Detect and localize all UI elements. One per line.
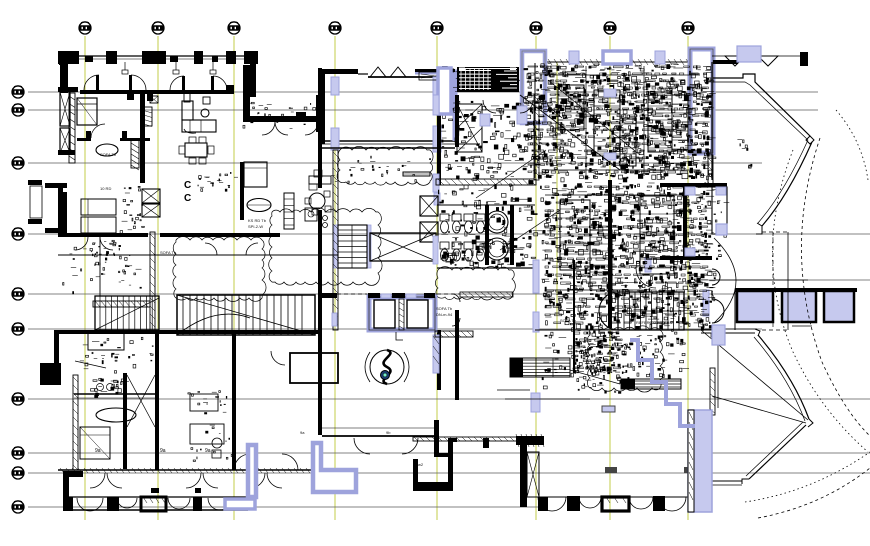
svg-text:C: C	[184, 193, 191, 204]
svg-text:SOFA Tb: SOFA Tb	[160, 250, 177, 255]
svg-text:9a: 9a	[160, 448, 166, 454]
svg-text:9a: 9a	[95, 448, 101, 454]
svg-text:C: C	[184, 180, 191, 191]
svg-text:KS RD Tb: KS RD Tb	[248, 218, 267, 223]
svg-text:9b: 9b	[386, 430, 391, 435]
svg-text:SOFA Tb: SOFA Tb	[436, 306, 453, 311]
svg-text:w2: w2	[418, 462, 424, 467]
svg-text:9a: 9a	[205, 448, 211, 454]
svg-text:SOFA Tb: SOFA Tb	[560, 318, 577, 323]
svg-text:SOFA Tb: SOFA Tb	[100, 152, 117, 157]
svg-text:10 RD: 10 RD	[100, 186, 111, 191]
svg-text:9a: 9a	[300, 430, 305, 435]
svg-text:REFER TO EN-ABS: REFER TO EN-ABS	[636, 320, 672, 325]
svg-text:SPI-2-W: SPI-2-W	[248, 224, 263, 229]
svg-text:DN-m-94: DN-m-94	[436, 312, 453, 317]
